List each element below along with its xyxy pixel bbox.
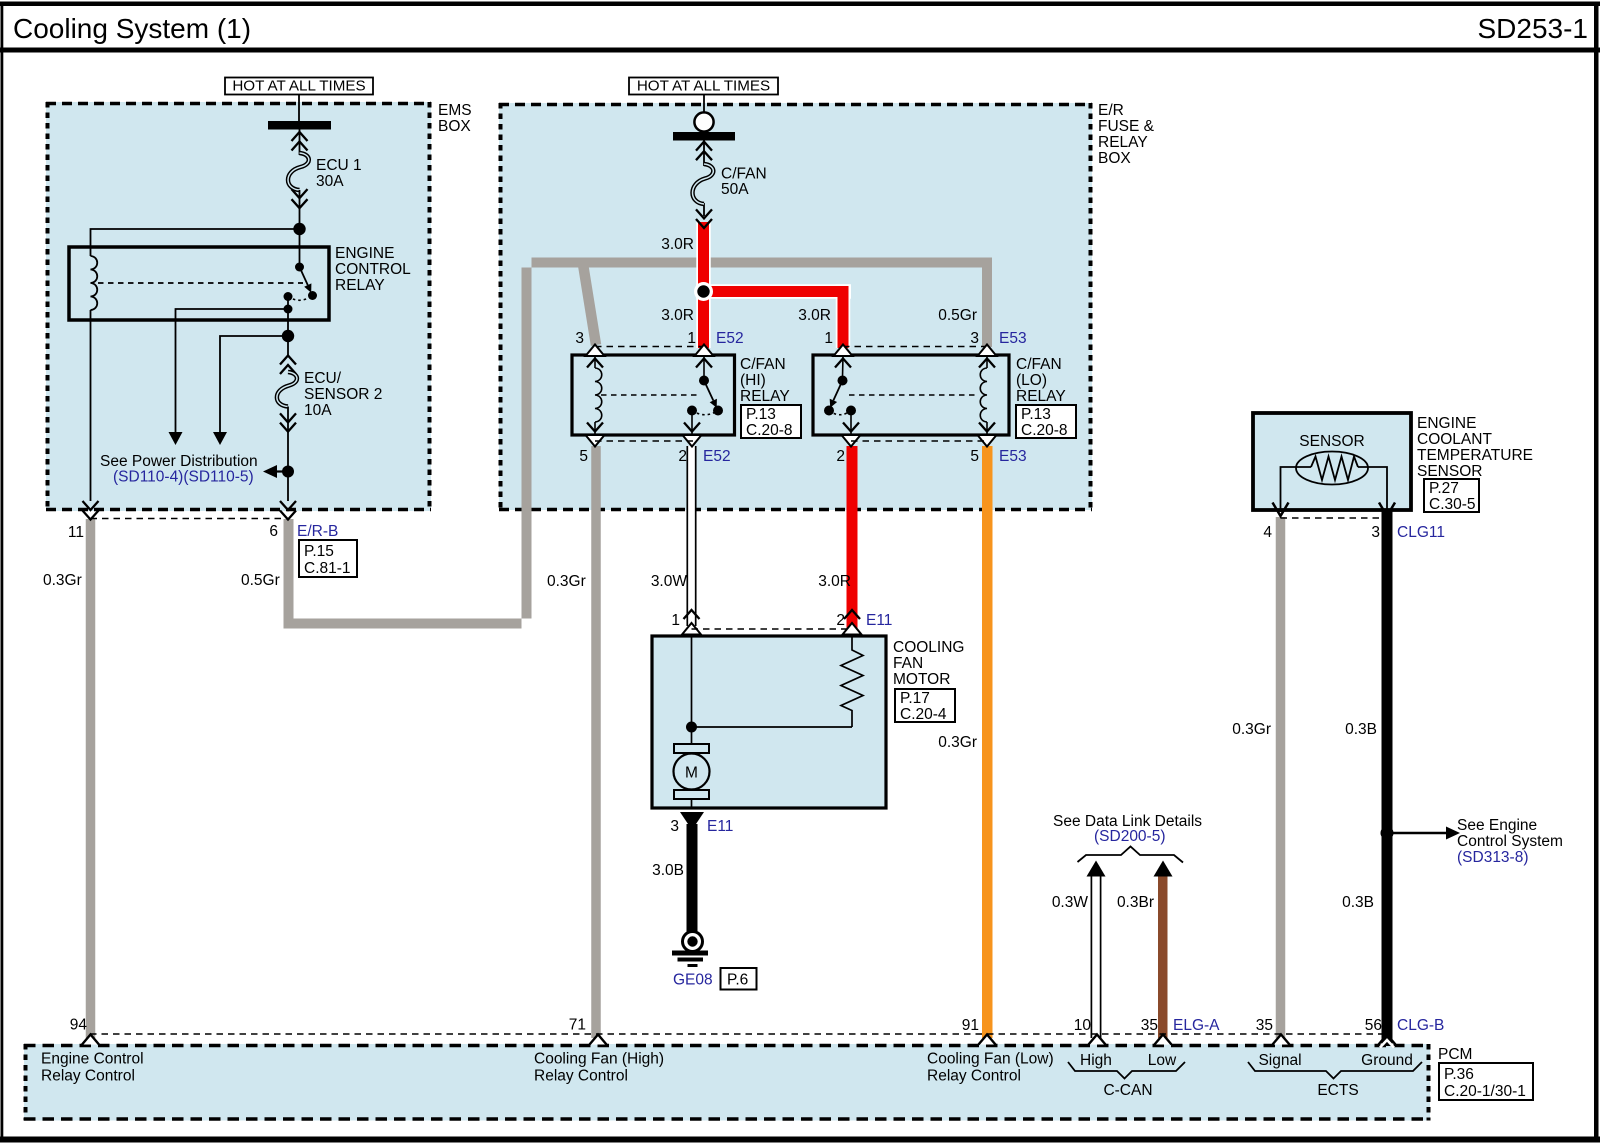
PCM box dashed border [24, 1044, 1430, 1121]
svg-text:GE08: GE08 [673, 972, 713, 989]
PCM box fill [24, 1044, 1430, 1121]
wire junction to relay coil [91, 229, 300, 256]
LO relay pin 3 connector triangle [978, 345, 997, 357]
svg-text:ENGINE: ENGINE [1417, 415, 1476, 432]
wire resistor to motor junction [692, 726, 853, 728]
svg-text:C/FAN: C/FAN [740, 356, 786, 373]
svg-text:HOT AT ALL TIMES: HOT AT ALL TIMES [232, 78, 365, 95]
node junction red wire (white halo) [694, 282, 713, 301]
svg-text:30A: 30A [316, 173, 344, 190]
callout See Power Distribution [277, 470, 288, 472]
svg-text:RELAY: RELAY [335, 277, 385, 294]
svg-text:Relay Control: Relay Control [534, 1068, 628, 1085]
motor pin 1 connector triangle [682, 623, 701, 635]
E/R FUSE & RELAY BOX fill [499, 103, 1092, 510]
wire white 3.0W C/FAN HI relay pin2 to motor pin1 [687, 446, 696, 626]
svg-text:BOX: BOX [1098, 150, 1131, 167]
PCM pin 35 triangle (CLG-B row) [1273, 1035, 1290, 1045]
node ring terminal [694, 112, 713, 131]
wire black 3.0B motor pin3 to ground GE08 [687, 824, 698, 932]
svg-text:(SD110-4)(SD110-5): (SD110-4)(SD110-5) [113, 469, 254, 486]
sensor pin 4 chevron [1273, 503, 1289, 517]
node junction above motor [686, 722, 697, 733]
svg-text:1: 1 [671, 612, 680, 629]
reference box P.6 [721, 968, 757, 990]
svg-text:94: 94 [70, 1017, 88, 1034]
svg-text:5: 5 [579, 448, 588, 465]
svg-text:PCM: PCM [1438, 1046, 1472, 1063]
pin 11 exit chevrons [83, 501, 99, 510]
PCM pin 91 triangle [979, 1035, 996, 1045]
wire gray 0.3Gr C/FAN HI relay pin5 to PCM pin71 [591, 446, 601, 1038]
brace over data link arrows [1078, 847, 1184, 863]
wire gray diagonal branch to C/FAN HI relay pin3 [583, 261, 597, 345]
wire switch output down [287, 297, 289, 357]
svg-text:CONTROL: CONTROL [335, 261, 411, 278]
svg-text:ECU/: ECU/ [304, 370, 342, 387]
PCM pin 94 triangle [82, 1035, 99, 1045]
svg-text:(SD200-5): (SD200-5) [1094, 828, 1166, 845]
svg-text:See Engine: See Engine [1457, 817, 1537, 834]
HI relay pin 2 connector triangle [683, 435, 702, 447]
node junction below fuse [293, 223, 305, 235]
node junction below relay [282, 330, 294, 342]
connector line E53 top [843, 346, 987, 348]
svg-text:3.0R: 3.0R [661, 236, 694, 253]
sensor thermistor zigzag [1311, 457, 1358, 481]
wire fuse to pin 6 [287, 429, 289, 501]
node junction on 0.3B wire [1381, 827, 1394, 840]
connector line E52 top [595, 346, 704, 348]
svg-text:50A: 50A [721, 181, 749, 198]
svg-text:35: 35 [1256, 1017, 1273, 1034]
svg-text:5: 5 [970, 448, 979, 465]
relay switch (EMS): fixed contact [295, 263, 304, 272]
motor pin 2 connector triangle [843, 623, 862, 635]
svg-text:Relay Control: Relay Control [41, 1068, 135, 1085]
LO relay pin 2 connector triangle [842, 435, 861, 447]
svg-text:4: 4 [1263, 524, 1272, 541]
svg-text:(HI): (HI) [740, 372, 766, 389]
svg-text:2: 2 [678, 448, 687, 465]
svg-text:P.15: P.15 [304, 543, 334, 560]
svg-text:C/FAN: C/FAN [721, 166, 767, 183]
relay internal dashed link [98, 282, 303, 284]
svg-text:SENSOR: SENSOR [1299, 433, 1364, 450]
svg-text:E11: E11 [707, 818, 733, 835]
svg-text:3.0R: 3.0R [661, 307, 694, 324]
svg-text:SENSOR 2: SENSOR 2 [304, 386, 382, 403]
wire red 3.0R C/FAN LO relay pin2 to motor pin2 [847, 446, 858, 628]
EMS BOX dashed border [46, 102, 431, 511]
svg-text:RELAY: RELAY [740, 388, 790, 405]
svg-text:High: High [1080, 1052, 1112, 1069]
connector line E11 top [692, 628, 853, 630]
sensor thermistor ellipse [1296, 452, 1368, 485]
svg-text:See Power Distribution: See Power Distribution [100, 453, 258, 470]
svg-text:RELAY: RELAY [1016, 388, 1066, 405]
svg-text:CLG11: CLG11 [1397, 524, 1445, 541]
svg-text:0.5Gr: 0.5Gr [938, 307, 977, 324]
svg-text:E53: E53 [999, 448, 1027, 465]
svg-text:Engine Control: Engine Control [41, 1051, 144, 1068]
svg-text:SENSOR: SENSOR [1417, 463, 1482, 480]
svg-text:0.3B: 0.3B [1342, 894, 1374, 911]
svg-text:C.20-8: C.20-8 [1021, 422, 1068, 439]
svg-text:0.3Gr: 0.3Gr [43, 572, 82, 589]
svg-text:P.17: P.17 [900, 690, 930, 707]
svg-text:Cooling Fan (Low): Cooling Fan (Low) [927, 1051, 1054, 1068]
svg-text:E/R-B: E/R-B [297, 523, 338, 540]
svg-text:ECU 1: ECU 1 [316, 157, 362, 174]
resistor inside motor box [841, 636, 863, 727]
reference box P.15 C.81-1 [299, 540, 357, 577]
EMS bus bar [268, 121, 331, 130]
relay switch contact dots [308, 291, 317, 300]
LO relay internal dashed link [849, 394, 978, 396]
svg-text:Signal: Signal [1258, 1052, 1301, 1069]
callout arrow See Engine Control System [1393, 832, 1447, 834]
motor pin 2 chevron [844, 610, 860, 619]
ENGINE COOLANT TEMPERATURE SENSOR box [1253, 413, 1411, 510]
wire gray 0.3Gr ECTS pin4 to PCM pin35 [1276, 517, 1286, 1038]
wire from HOT box to bus bar [298, 95, 300, 122]
sensor pin 3 chevron [1379, 503, 1395, 517]
E/R FUSE & RELAY BOX dashed border [499, 103, 1092, 511]
svg-text:C-CAN: C-CAN [1103, 1082, 1152, 1099]
brace C-CAN [1068, 1062, 1185, 1079]
E/R bus bar [673, 132, 735, 141]
svg-text:0.3Gr: 0.3Gr [1232, 721, 1271, 738]
HI relay pin 5 connector triangle [586, 435, 605, 447]
node junction at see-power-distribution callout [282, 466, 294, 478]
svg-text:11: 11 [68, 524, 84, 541]
sensor wires to pins 4 and 3 [1281, 467, 1312, 512]
wire gray 0.3Gr EMS pin11 to PCM pin94 [86, 519, 96, 1038]
relay coil (EMS) [91, 256, 98, 310]
LO relay coil [979, 356, 995, 435]
LO relay switch [824, 356, 859, 435]
wire black 0.3B ECTS pin3 to PCM pin56 CLG-B [1382, 510, 1393, 1038]
wire from HOT box down [703, 95, 705, 134]
HOT AT ALL TIMES box (EMS) [225, 78, 373, 95]
fuse ECU/SENSOR 2 10A [277, 356, 297, 432]
svg-text:P.27: P.27 [1429, 480, 1459, 497]
svg-text:0.3W: 0.3W [1052, 894, 1089, 911]
COOLING FAN MOTOR box [652, 636, 886, 808]
svg-text:TEMPERATURE: TEMPERATURE [1417, 447, 1533, 464]
svg-text:35: 35 [1141, 1017, 1158, 1034]
svg-text:C.20-4: C.20-4 [900, 706, 947, 723]
wire motor pin 1 down [691, 636, 693, 744]
relay C/FAN (HI) RELAY box [572, 355, 735, 435]
svg-text:COOLANT: COOLANT [1417, 431, 1492, 448]
ground GE08 symbol [672, 932, 708, 968]
svg-text:HOT AT ALL TIMES: HOT AT ALL TIMES [637, 78, 770, 95]
svg-text:0.3Br: 0.3Br [1117, 894, 1154, 911]
wire coil to pin 11 [90, 310, 92, 501]
svg-text:0.3Gr: 0.3Gr [547, 573, 586, 590]
svg-text:2: 2 [836, 448, 845, 465]
reference box P.36 C.20-1/30-1 [1439, 1063, 1533, 1100]
svg-text:Cooling Fan (High): Cooling Fan (High) [534, 1051, 664, 1068]
motor pin 3 arrow (E11) [680, 812, 704, 830]
svg-text:MOTOR: MOTOR [893, 671, 950, 688]
connector line CLG11 [1281, 517, 1388, 519]
svg-text:1: 1 [824, 330, 833, 347]
svg-text:3: 3 [1371, 524, 1380, 541]
relay ENGINE CONTROL RELAY box [69, 247, 329, 320]
reference box P.13 C.20-8 (LO) [1016, 405, 1076, 438]
svg-text:0.3Gr: 0.3Gr [938, 734, 977, 751]
reference box P.17 C.20-4 [895, 689, 955, 722]
svg-text:3.0W: 3.0W [651, 573, 688, 590]
svg-text:CLG-B: CLG-B [1397, 1017, 1444, 1034]
svg-text:EMS: EMS [438, 102, 472, 119]
svg-text:2: 2 [836, 612, 845, 629]
PCM pin 35 triangle (ELG-A) [1155, 1035, 1172, 1045]
wire white 0.3W data link high to PCM pin10 [1091, 876, 1100, 1038]
svg-text:FAN: FAN [893, 655, 923, 672]
wire orange C/FAN LO relay pin5 to PCM pin91 [982, 446, 993, 1038]
svg-text:0.5Gr: 0.5Gr [241, 572, 280, 589]
svg-text:E11: E11 [866, 612, 892, 629]
svg-text:P.13: P.13 [1021, 406, 1051, 423]
wire fuse to relay switch [299, 212, 301, 267]
wire red 3.0R fuse to junction to C/FAN HI relay pin1 [696, 222, 711, 348]
PCM pin 71 triangle [590, 1035, 607, 1045]
EMS BOX fill [46, 102, 431, 511]
svg-text:C.81-1: C.81-1 [304, 560, 351, 577]
svg-text:71: 71 [569, 1017, 586, 1034]
svg-text:BOX: BOX [438, 118, 471, 135]
svg-text:3: 3 [575, 330, 584, 347]
svg-text:3.0R: 3.0R [798, 307, 831, 324]
svg-text:6: 6 [269, 523, 278, 540]
svg-text:Ground: Ground [1361, 1052, 1413, 1069]
motor pin 1 chevron [684, 610, 700, 619]
reference box P.27 C.30-5 [1424, 479, 1479, 512]
svg-text:3: 3 [970, 330, 979, 347]
svg-text:M: M [685, 765, 698, 782]
HI relay switch [684, 356, 723, 435]
data link arrow low [1154, 861, 1173, 877]
relay switch arm with arrowhead [300, 267, 308, 285]
svg-text:SD253-1: SD253-1 [1477, 13, 1588, 44]
svg-text:3.0B: 3.0B [652, 862, 684, 879]
PCM connector line [90, 1033, 1387, 1035]
HI relay internal dashed link [601, 394, 700, 396]
data link arrow high [1087, 861, 1106, 877]
svg-text:Relay Control: Relay Control [927, 1068, 1021, 1085]
wire branch to power distribution arrow 1 [176, 309, 289, 432]
svg-text:P.36: P.36 [1444, 1066, 1474, 1083]
svg-text:(LO): (LO) [1016, 372, 1047, 389]
LO relay pin 5 connector triangle [978, 435, 997, 447]
svg-text:0.3B: 0.3B [1345, 721, 1377, 738]
svg-text:C/FAN: C/FAN [1016, 356, 1062, 373]
PCM pin 56 triangle [1379, 1035, 1396, 1045]
svg-text:P.6: P.6 [727, 972, 748, 989]
svg-text:COOLING: COOLING [893, 639, 964, 656]
svg-text:E/R: E/R [1098, 102, 1124, 119]
svg-text:10: 10 [1074, 1017, 1092, 1034]
svg-text:(SD313-8): (SD313-8) [1457, 849, 1529, 866]
svg-text:ENGINE: ENGINE [335, 245, 394, 262]
connector line E52 bottom [595, 440, 693, 442]
LO relay pin 1 connector triangle [834, 345, 853, 357]
reference box P.13 C.20-8 (HI) [741, 405, 801, 438]
motor M symbol [674, 744, 710, 808]
svg-text:ELG-A: ELG-A [1173, 1017, 1220, 1034]
node switch output branch inside relay [284, 305, 293, 314]
fuse ECU 1 30A [288, 129, 309, 212]
svg-text:91: 91 [962, 1017, 979, 1034]
fuse C/FAN 50A [693, 140, 714, 228]
relay C/FAN (LO) RELAY box [813, 355, 1009, 435]
svg-text:56: 56 [1365, 1017, 1382, 1034]
svg-text:P.13: P.13 [746, 406, 776, 423]
svg-text:Cooling System (1): Cooling System (1) [13, 13, 251, 44]
pin 6 exit chevrons [280, 501, 296, 510]
svg-text:E53: E53 [999, 330, 1027, 347]
svg-text:ECTS: ECTS [1317, 1082, 1358, 1099]
svg-text:Control System: Control System [1457, 833, 1563, 850]
svg-text:FUSE &: FUSE & [1098, 118, 1155, 135]
wire red 3.0R horizontal junction to LO relay drop [698, 286, 849, 297]
PCM pin 10 triangle [1089, 1035, 1106, 1045]
wire gray 0.5Gr EMS pin6 down, right, up into E/R box to relays [284, 258, 993, 629]
connector line E53 bottom [851, 440, 987, 442]
svg-text:3: 3 [670, 818, 679, 835]
svg-text:C.20-1/30-1: C.20-1/30-1 [1444, 1083, 1526, 1100]
svg-text:3.0R: 3.0R [818, 573, 851, 590]
svg-text:E52: E52 [716, 330, 744, 347]
wire red 3.0R down to C/FAN LO relay pin1 [838, 286, 849, 348]
wire brown 0.3Br data link low to PCM pin35 ELG-A [1158, 876, 1168, 1038]
wire branch to power distribution arrow 2 [220, 336, 288, 432]
HI relay pin 3 connector triangle [586, 345, 605, 357]
relay switch dotted travel arc [288, 296, 313, 301]
HI relay pin 1 connector triangle [695, 345, 714, 357]
svg-text:E52: E52 [703, 448, 731, 465]
svg-text:C.30-5: C.30-5 [1429, 496, 1476, 513]
svg-text:C.20-8: C.20-8 [746, 422, 793, 439]
connector line pins 11-6 [91, 518, 289, 520]
svg-text:10A: 10A [304, 402, 332, 419]
HOT AT ALL TIMES box (E/R) [629, 78, 778, 95]
brace ECTS [1248, 1062, 1422, 1079]
svg-text:RELAY: RELAY [1098, 134, 1148, 151]
svg-text:1: 1 [687, 330, 696, 347]
svg-text:Low: Low [1148, 1052, 1177, 1069]
HI relay coil [587, 356, 603, 435]
